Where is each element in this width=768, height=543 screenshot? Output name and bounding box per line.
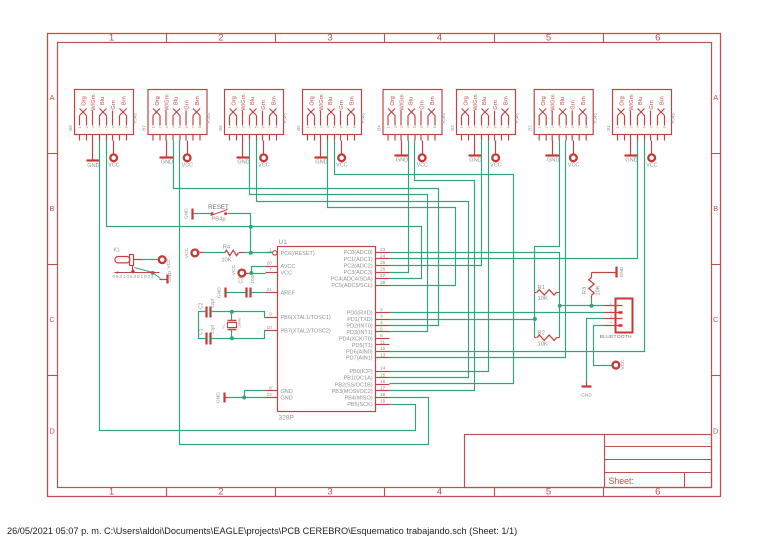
svg-text:GND: GND — [581, 392, 592, 398]
svg-text:R1: R1 — [538, 285, 545, 291]
svg-text:16MHz: 16MHz — [238, 317, 242, 328]
svg-text:15: 15 — [380, 372, 386, 378]
svg-text:GND: GND — [625, 157, 637, 163]
svg-text:1: 1 — [109, 487, 114, 498]
svg-text:16: 16 — [380, 379, 386, 385]
svg-text:Sheet:: Sheet: — [609, 476, 634, 486]
svg-text:8: 8 — [269, 385, 272, 391]
svg-text:5: 5 — [546, 32, 551, 43]
svg-text:22: 22 — [266, 392, 272, 398]
svg-text:12: 12 — [380, 346, 386, 352]
svg-text:PB5(SCK): PB5(SCK) — [347, 402, 373, 408]
svg-text:PD2(INT0): PD2(INT0) — [346, 324, 372, 330]
svg-text:10K: 10K — [538, 342, 548, 348]
svg-text:D: D — [49, 426, 54, 435]
svg-text:PB0(ICP): PB0(ICP) — [349, 369, 372, 375]
svg-text:AREF: AREF — [281, 291, 296, 297]
svg-text:13: 13 — [380, 352, 386, 358]
svg-text:22pf: 22pf — [210, 298, 215, 308]
svg-text:PD5(T1): PD5(T1) — [352, 343, 373, 349]
svg-text:VCC: VCC — [568, 163, 579, 169]
svg-text:GND: GND — [87, 163, 99, 169]
svg-text:GND: GND — [217, 287, 223, 298]
svg-text:10K: 10K — [596, 285, 602, 295]
svg-text:PC2(ADC2): PC2(ADC2) — [344, 263, 373, 269]
svg-text:R3: R3 — [582, 287, 588, 294]
svg-text:26/05/2021 05:07 p. m. C:\Use: 26/05/2021 05:07 p. m. C:\Users\aldoi\Do… — [7, 526, 517, 536]
svg-text:PC4(ADC4/SDA): PC4(ADC4/SDA) — [331, 277, 373, 283]
svg-text:328P: 328P — [279, 415, 295, 422]
svg-text:10K: 10K — [221, 257, 231, 263]
svg-text:GND: GND — [161, 160, 173, 166]
svg-text:6: 6 — [655, 32, 660, 43]
svg-text:7: 7 — [269, 267, 272, 273]
svg-text:B: B — [713, 204, 718, 213]
svg-text:PB6(XTAL1/TOSC1): PB6(XTAL1/TOSC1) — [281, 315, 331, 321]
svg-text:PB4(MISO): PB4(MISO) — [344, 396, 372, 402]
svg-text:PB1(OC1A): PB1(OC1A) — [344, 376, 373, 382]
svg-text:B5: B5 — [296, 125, 301, 131]
svg-text:B8: B8 — [68, 125, 73, 131]
svg-text:B: B — [50, 204, 55, 213]
svg-text:100n: 100n — [250, 273, 255, 284]
svg-text:Y1: Y1 — [222, 324, 226, 329]
svg-text:GND: GND — [315, 160, 327, 166]
svg-text:6: 6 — [380, 333, 383, 339]
svg-text:VCC: VCC — [166, 258, 172, 269]
svg-text:PB4p: PB4p — [211, 216, 225, 222]
svg-text:GND: GND — [469, 157, 481, 163]
svg-text:4: 4 — [610, 321, 612, 325]
svg-text:4: 4 — [437, 487, 443, 498]
svg-text:C1: C1 — [198, 328, 204, 335]
svg-text:PC0(ADC0): PC0(ADC0) — [344, 250, 373, 256]
svg-text:4: 4 — [380, 320, 383, 326]
svg-text:A: A — [713, 93, 718, 102]
svg-text:10K: 10K — [538, 296, 548, 302]
svg-text:22pf: 22pf — [210, 324, 215, 334]
svg-text:VCC: VCC — [336, 163, 347, 169]
svg-text:GND: GND — [396, 157, 408, 163]
svg-text:C: C — [713, 315, 719, 324]
svg-text:1: 1 — [109, 32, 114, 43]
svg-text:21: 21 — [266, 287, 272, 293]
svg-text:VCC: VCC — [231, 264, 237, 275]
svg-text:19: 19 — [380, 399, 386, 405]
svg-text:PC6(/RESET): PC6(/RESET) — [281, 251, 315, 257]
svg-text:PC3(ADC3): PC3(ADC3) — [344, 270, 373, 276]
svg-text:26: 26 — [380, 267, 386, 273]
svg-text:PD4(XCK/T0): PD4(XCK/T0) — [339, 336, 373, 342]
svg-text:R4: R4 — [223, 245, 231, 251]
svg-text:B1: B1 — [606, 125, 611, 131]
svg-text:3: 3 — [327, 487, 332, 498]
svg-text:VCC: VCC — [281, 271, 293, 277]
svg-text:GND: GND — [183, 208, 189, 219]
svg-text:GND: GND — [216, 392, 222, 403]
svg-text:3: 3 — [380, 314, 383, 320]
svg-text:3: 3 — [610, 315, 612, 319]
svg-text:17: 17 — [380, 386, 386, 392]
svg-text:VCC: VCC — [620, 359, 626, 370]
svg-text:2: 2 — [218, 32, 223, 43]
svg-text:28: 28 — [380, 280, 386, 286]
svg-text:D: D — [713, 426, 718, 435]
svg-text:9: 9 — [269, 311, 272, 317]
svg-text:B3: B3 — [450, 125, 455, 131]
svg-text:VCC: VCC — [258, 163, 269, 169]
svg-text:B6: B6 — [218, 125, 223, 131]
svg-text:PB7(XTAL2/TOSC2): PB7(XTAL2/TOSC2) — [281, 329, 331, 335]
svg-text:C3: C3 — [238, 277, 244, 284]
svg-text:20: 20 — [266, 260, 272, 266]
svg-text:18: 18 — [380, 392, 386, 398]
svg-text:R2: R2 — [538, 330, 545, 336]
svg-text:VCC: VCC — [490, 163, 501, 169]
svg-text:5: 5 — [546, 487, 551, 498]
svg-text:2: 2 — [380, 307, 383, 313]
svg-text:GND: GND — [547, 157, 559, 163]
svg-text:GND: GND — [237, 160, 249, 166]
svg-text:K1: K1 — [114, 248, 120, 254]
svg-text:PD7(AIN1): PD7(AIN1) — [346, 356, 373, 362]
svg-text:4: 4 — [437, 32, 443, 43]
svg-text:VCC: VCC — [184, 247, 190, 258]
svg-text:PD6(AIN0): PD6(AIN0) — [346, 349, 373, 355]
svg-text:B4: B4 — [376, 125, 381, 131]
svg-text:24: 24 — [380, 253, 386, 259]
svg-text:PD3(INT1): PD3(INT1) — [346, 330, 372, 336]
svg-text:PC1(ADC1): PC1(ADC1) — [344, 257, 373, 263]
svg-text:A: A — [50, 93, 55, 102]
svg-text:GND: GND — [167, 271, 173, 282]
svg-text:25: 25 — [380, 260, 386, 266]
svg-text:PB2(SS/OC1B): PB2(SS/OC1B) — [335, 382, 373, 388]
svg-text:5: 5 — [380, 327, 383, 333]
svg-text:AVCC: AVCC — [281, 264, 296, 270]
svg-text:27: 27 — [380, 273, 386, 279]
svg-text:RESET: RESET — [208, 204, 229, 211]
svg-text:VCC: VCC — [417, 163, 428, 169]
svg-text:B7: B7 — [141, 125, 146, 131]
svg-text:BLUETOOTH: BLUETOOTH — [600, 334, 632, 340]
svg-text:PD1(TXD): PD1(TXD) — [347, 317, 373, 323]
svg-text:23: 23 — [380, 247, 386, 253]
svg-text:PC5(ADC5/SCL): PC5(ADC5/SCL) — [331, 283, 372, 289]
svg-text:10: 10 — [266, 325, 272, 331]
svg-text:GND: GND — [281, 396, 293, 402]
svg-text:U1: U1 — [279, 239, 288, 246]
svg-text:11: 11 — [380, 339, 385, 345]
svg-text:2: 2 — [218, 487, 223, 498]
svg-text:C: C — [49, 315, 55, 324]
svg-text:VCC: VCC — [646, 163, 657, 169]
svg-text:3: 3 — [327, 32, 332, 43]
svg-text:GND: GND — [619, 266, 625, 277]
svg-text:PB3(MOSI/OC2): PB3(MOSI/OC2) — [332, 389, 373, 395]
svg-text:1: 1 — [610, 301, 612, 305]
svg-text:2: 2 — [610, 309, 612, 313]
svg-text:VCC: VCC — [182, 163, 193, 169]
svg-text:C2: C2 — [198, 302, 204, 309]
svg-text:GND: GND — [281, 389, 293, 395]
svg-text:14: 14 — [380, 366, 386, 372]
svg-text:PD0(RXD): PD0(RXD) — [347, 311, 373, 317]
svg-text:B2: B2 — [528, 125, 533, 131]
svg-text:6: 6 — [655, 487, 660, 498]
svg-text:694106301002: 694106301002 — [113, 274, 155, 279]
svg-text:VCC: VCC — [108, 163, 119, 169]
